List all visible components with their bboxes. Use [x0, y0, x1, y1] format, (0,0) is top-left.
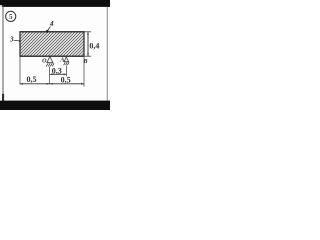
svg-text:B: B [82, 58, 87, 65]
svg-text:0,3: 0,3 [52, 67, 62, 76]
svg-text:A: A [59, 58, 64, 64]
svg-text:O: O [42, 59, 47, 65]
svg-text:0,4: 0,4 [89, 42, 99, 51]
svg-text:5: 5 [9, 14, 13, 21]
svg-text:0,5: 0,5 [27, 75, 37, 84]
svg-text:4: 4 [49, 19, 54, 28]
svg-text:3: 3 [9, 37, 14, 44]
svg-text:0,5: 0,5 [61, 75, 71, 84]
